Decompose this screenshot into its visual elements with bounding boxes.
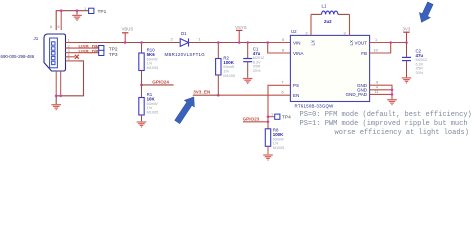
- svg-text:9: 9: [376, 81, 378, 85]
- wire J1 pin2 USB_DM: [66, 47, 99, 49]
- svg-text:M1005: M1005: [147, 110, 159, 114]
- resistor R10: [141, 43, 143, 54]
- node junction GND2: [391, 89, 394, 92]
- svg-text:MBR120VLSFT1G: MBR120VLSFT1G: [165, 52, 206, 57]
- svg-text:VSYS: VSYS: [235, 25, 247, 30]
- svg-text:worse efficiency at light load: worse efficiency at light loads): [335, 129, 469, 137]
- svg-text:TP1: TP1: [98, 9, 107, 15]
- svg-text:VIN: VIN: [293, 40, 301, 45]
- wire LX left stub: [310, 14, 312, 35]
- connector J1 inner pin row: [50, 38, 58, 68]
- svg-text:RT6150B-33GQW: RT6150B-33GQW: [295, 103, 335, 108]
- node junction shield right: [59, 95, 62, 98]
- testpoint TP1: [89, 8, 94, 13]
- connector J1 pin pads: [52, 42, 55, 65]
- svg-text:5K6: 5K6: [147, 52, 156, 57]
- svg-text:M1005: M1005: [223, 74, 235, 78]
- wire VOUT rail: [370, 42, 407, 44]
- svg-text:TP2: TP2: [109, 47, 118, 53]
- svg-text:7: 7: [282, 81, 284, 85]
- node junction R2 bottom on EN wire: [217, 94, 220, 97]
- wire VINA drop: [268, 43, 291, 54]
- svg-text:M1005: M1005: [147, 66, 159, 70]
- testpoint TP3: [99, 50, 104, 55]
- resistor R1: [141, 85, 143, 98]
- node junction top shield: [60, 9, 63, 12]
- svg-text:1: 1: [199, 38, 201, 42]
- wire D1 cathode to VIN rail: [189, 42, 268, 44]
- svg-text:1: 1: [68, 38, 70, 42]
- svg-text:TP3: TP3: [109, 52, 118, 58]
- node junction C1 top: [246, 41, 249, 44]
- svg-text:1: 1: [375, 38, 377, 42]
- svg-text:10K: 10K: [147, 97, 156, 102]
- wire down to ground under J1: [55, 96, 57, 104]
- no-connect X on pin 4: [75, 55, 79, 59]
- svg-text:1: 1: [95, 49, 97, 53]
- svg-text:47u: 47u: [416, 53, 424, 58]
- svg-text:M1005: M1005: [273, 146, 285, 150]
- svg-text:6: 6: [282, 91, 284, 95]
- svg-text:FB: FB: [361, 51, 367, 56]
- wire PS with GPIO23 tap: [268, 85, 290, 129]
- resistor R2 pull-up: [217, 43, 219, 59]
- svg-text:5: 5: [282, 38, 284, 42]
- wire ground top-left horizontal: [56, 11, 93, 30]
- svg-text:6: 6: [50, 25, 52, 29]
- svg-text:47u: 47u: [253, 51, 261, 56]
- svg-text:1: 1: [271, 113, 273, 117]
- svg-text:5: 5: [68, 57, 70, 61]
- svg-text:100K: 100K: [273, 132, 284, 137]
- svg-text:PS=1: PWM mode (improved rippl: PS=1: PWM mode (improved ripple but much: [300, 120, 468, 128]
- wire GND_PAD: [370, 93, 392, 95]
- svg-text:J1: J1: [34, 36, 39, 41]
- wire GPIO24 stub: [142, 84, 174, 86]
- svg-text:100K: 100K: [223, 60, 234, 65]
- svg-text:VBUS: VBUS: [122, 27, 134, 32]
- ground symbol under J1: [51, 105, 61, 110]
- svg-text:VINA: VINA: [293, 51, 304, 56]
- capacitor C2: [406, 43, 408, 58]
- node junction TP4: [267, 115, 270, 118]
- wire shield bottom right: [60, 71, 62, 96]
- wire J1 pin3 USB_DP: [66, 52, 99, 54]
- svg-text:3: 3: [344, 32, 346, 36]
- svg-text:10: 10: [374, 48, 378, 52]
- svg-text:20%: 20%: [416, 71, 424, 75]
- svg-text:3V3_EN: 3V3_EN: [193, 89, 211, 94]
- svg-text:L1: L1: [322, 4, 327, 9]
- wire FB feedback: [370, 43, 391, 54]
- node junction R2 top: [217, 41, 220, 44]
- svg-text:EN: EN: [293, 93, 299, 98]
- wire EN 3V3_EN: [193, 94, 219, 96]
- svg-text:PS=0: PFM mode (default, best: PS=0: PFM mode (default, best efficiency…: [300, 111, 472, 119]
- svg-text:GND_PAD: GND_PAD: [346, 92, 368, 97]
- annotation arrow to 3V3_EN: [172, 94, 199, 126]
- svg-text:TP4: TP4: [282, 115, 291, 121]
- capacitor C1: [247, 43, 249, 59]
- node junction shield left: [55, 95, 58, 98]
- svg-text:4: 4: [376, 85, 378, 89]
- resistor R8 pull-down: [265, 129, 270, 147]
- svg-text:2u2: 2u2: [324, 19, 332, 24]
- wire LX right stub: [349, 14, 351, 35]
- node junction VSYS: [238, 41, 241, 44]
- svg-text:8: 8: [282, 48, 284, 52]
- ground symbol under C1: [243, 79, 253, 84]
- wire shield top right vertical: [60, 11, 62, 30]
- testpoint TP4: [275, 114, 280, 119]
- node junction GPIO24: [140, 84, 143, 87]
- inductor L1: [311, 13, 322, 15]
- testpoint TP2: [99, 46, 104, 51]
- wire GND 2: [370, 89, 392, 91]
- ground symbol under U2: [387, 100, 397, 105]
- svg-text:2: 2: [171, 38, 173, 42]
- svg-text:20%: 20%: [253, 69, 261, 73]
- svg-text:GPIO24: GPIO24: [152, 80, 169, 85]
- wire J1 pin4 stub: [66, 56, 76, 58]
- svg-text:11: 11: [375, 90, 379, 94]
- node junction 3V3/C2: [405, 41, 408, 44]
- svg-text:GPIO23: GPIO23: [243, 116, 260, 121]
- svg-text:LX: LX: [311, 40, 316, 46]
- wire J1 pin5 ground loop: [66, 60, 80, 62]
- svg-text:2: 2: [68, 44, 70, 48]
- svg-text:2: 2: [306, 32, 308, 36]
- wire GPIO23 stub: [243, 121, 268, 123]
- connector J1 outer body: [44, 34, 66, 71]
- node junction R10 top: [140, 41, 143, 44]
- svg-text:U2: U2: [291, 29, 297, 34]
- wire GND bus: [370, 85, 392, 99]
- node junction GND_PAD: [391, 93, 394, 96]
- svg-text:VOUT: VOUT: [354, 40, 367, 45]
- wire TP4 stub: [268, 116, 275, 118]
- svg-text:1: 1: [84, 7, 86, 11]
- svg-text:6: 6: [58, 25, 60, 29]
- node junction ground stub: [76, 9, 79, 12]
- op chip U2 body: [290, 35, 369, 101]
- ground symbol under R1: [137, 122, 147, 127]
- node junction GPIO23: [267, 121, 270, 124]
- svg-text:PS: PS: [293, 83, 299, 88]
- wire J1 pin1 VBUS to rail: [66, 42, 80, 44]
- svg-text:LX: LX: [349, 40, 354, 46]
- wire shield bottom left: [55, 71, 57, 96]
- node junction FB/VOUT: [389, 41, 392, 44]
- svg-text:3V3: 3V3: [403, 27, 411, 32]
- annotation arrow to 3V3: [416, 1, 436, 25]
- node junction VIN/VINA: [266, 41, 269, 44]
- node junction VBUS: [124, 41, 127, 44]
- svg-text:D1: D1: [181, 31, 187, 36]
- svg-text:690-005-298-486: 690-005-298-486: [1, 54, 35, 59]
- ground symbol under C2: [402, 78, 412, 83]
- wire ground stub TP1: [76, 11, 78, 15]
- ground symbol under R8: [263, 155, 273, 160]
- ground symbol top-left: [72, 15, 82, 20]
